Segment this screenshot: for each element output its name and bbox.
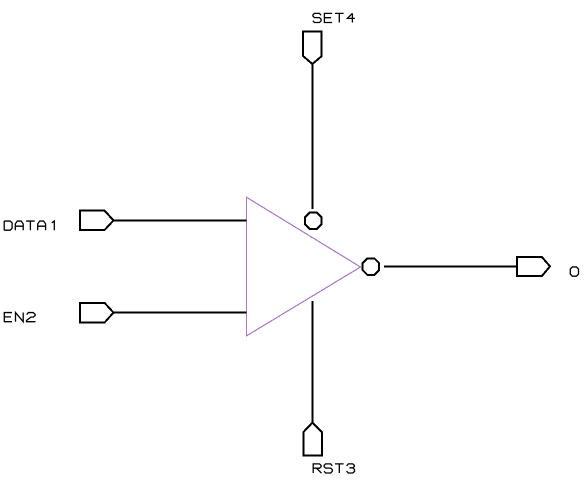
label O <box>570 267 578 276</box>
port SET4 <box>303 32 322 64</box>
port O <box>517 257 550 276</box>
label EN2 <box>4 313 35 322</box>
port DATA1 <box>80 211 114 231</box>
wire RST3 pin <box>312 301 314 423</box>
bubble on top pin <box>305 212 322 229</box>
bubble on output <box>362 258 379 275</box>
buffer triangle U1 <box>246 197 360 336</box>
label SET4 <box>313 13 355 22</box>
port RST3 <box>303 423 322 456</box>
wire output to port O <box>384 266 517 268</box>
label DATA1 <box>4 221 54 230</box>
wire EN2 to buffer <box>114 312 247 314</box>
wire SET4 pin <box>312 64 314 209</box>
wire DATA1 to buffer input <box>114 220 247 222</box>
port EN2 <box>80 303 114 323</box>
label RST3 <box>313 464 354 473</box>
